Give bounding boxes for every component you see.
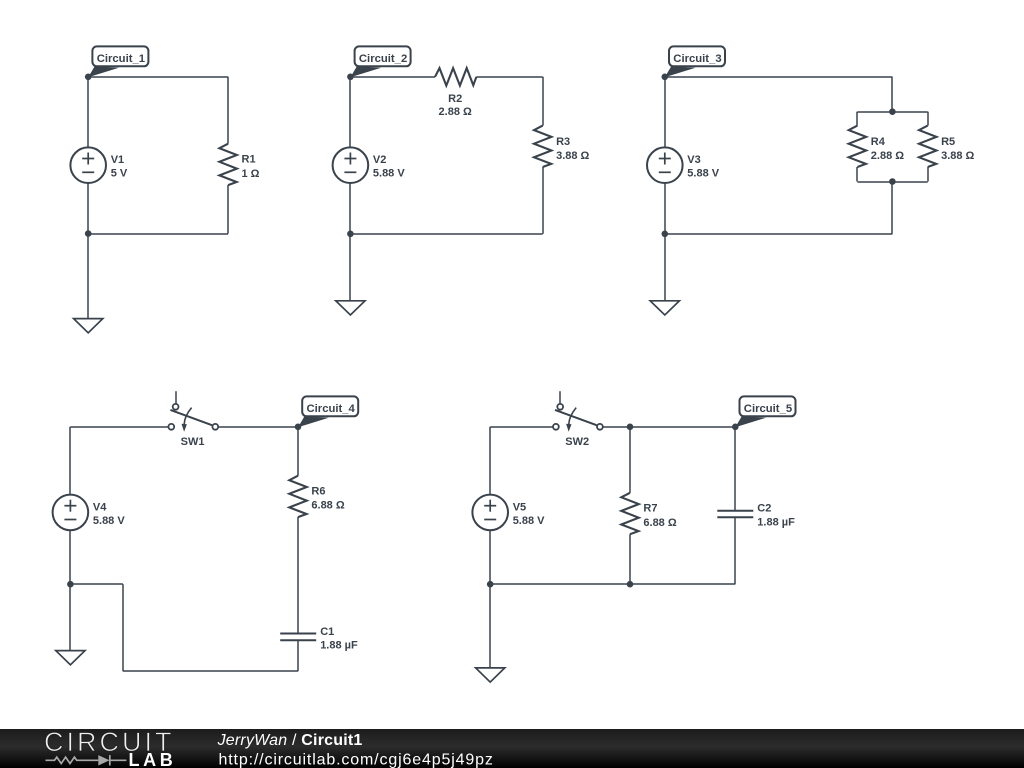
svg-text:http://circuitlab.com/cgj6e4p5: http://circuitlab.com/cgj6e4p5j49pz [219,752,494,768]
wire circuit1 bottom horizontal [88,233,228,235]
wire circuit2 right top [542,77,544,126]
wire circuit2 V2 to bottom node [349,183,351,234]
resistor R4 [849,126,867,167]
svg-text:V3: V3 [687,154,700,166]
wire circuit2 bottom horizontal [350,233,542,235]
label V2 value [373,154,405,179]
svg-text:3.88 Ω: 3.88 Ω [941,150,974,162]
wire circuit4 R6 to C1 [297,517,299,633]
wire R4 bottom lead [856,167,858,182]
resistor R7 [621,493,639,534]
node circuit1 top-left junction [85,74,92,81]
node circuit5 top-right corner [732,424,739,431]
node circuit5 switch-R7 junction [627,424,634,431]
voltage source V4 [53,495,89,531]
svg-text:C1: C1 [320,626,334,638]
wire circuit1 top horizontal [88,76,228,78]
wire circuit3 V3 to bottom node [664,183,666,234]
node circuit2 bottom-left junction [347,231,354,238]
svg-text:Circuit_3: Circuit_3 [673,53,721,65]
wire circuit1 right top [227,77,229,144]
switch SW1 [168,391,218,432]
svg-text:2.88 Ω: 2.88 Ω [871,150,904,162]
svg-text:Circuit_5: Circuit_5 [744,403,792,415]
wire circuit5 left bottom [489,530,491,584]
wire circuit5 left top [489,427,491,495]
svg-text:5 V: 5 V [111,168,128,180]
node circuit5 bottom-left junction [487,581,494,588]
wire circuit1 top node to V1 [87,77,89,148]
svg-text:6.88 Ω: 6.88 Ω [643,517,676,529]
label C1 value [320,626,358,652]
wire circuit1 right bottom [227,185,229,234]
node Circuit_5 callout [735,396,795,427]
voltage source V5 [472,495,508,531]
svg-text:V1: V1 [111,154,124,166]
svg-text:3.88 Ω: 3.88 Ω [556,150,589,162]
ground circuit5 [476,668,505,682]
svg-text:5.88 V: 5.88 V [513,515,545,527]
wire circuit2 top node to V2 [349,77,351,148]
svg-text:2.88 Ω: 2.88 Ω [439,106,472,118]
svg-text:C2: C2 [757,503,771,515]
capacitor C1 [280,634,316,641]
svg-text:R3: R3 [556,136,570,148]
node circuit4 bottom-left junction [67,581,74,588]
svg-text:5.88 V: 5.88 V [373,168,405,180]
wire circuit2 top left segment [350,76,435,78]
svg-text:R4: R4 [871,136,886,148]
wire circuit1 ground lead [87,234,89,319]
node Circuit_4 callout [298,396,358,427]
wire circuit4 bottom horizontal [123,670,298,672]
svg-text:LAB: LAB [129,750,177,768]
voltage source V3 [647,147,683,183]
svg-text:JerryWan / Circuit1: JerryWan / Circuit1 [217,732,363,749]
svg-text:5.88 V: 5.88 V [93,515,125,527]
wire circuit5 ground lead [489,584,491,668]
label V5 value [513,501,545,526]
wire circuit5 C2 top lead [734,427,736,511]
CircuitLab logo resistor-diode squiggle [46,755,127,765]
wire R5 bottom lead [927,167,929,182]
label R3 value [556,136,589,162]
wire circuit4 V4 to switch [70,426,168,428]
wire circuit3 top horizontal [665,76,893,78]
wire circuit5 R7 top lead [629,427,631,493]
label R2 value [439,93,472,118]
wire circuit3 bottom horizontal [665,233,893,235]
node circuit3 parallel top junction [889,108,896,115]
svg-text:V2: V2 [373,154,386,166]
node circuit3 bottom-left junction [662,231,669,238]
wire circuit4 left bottom [69,530,71,584]
svg-text:6.88 Ω: 6.88 Ω [311,500,344,512]
node circuit4 top-right corner [295,424,302,431]
svg-text:SW2: SW2 [565,436,589,448]
node Circuit_1 callout [88,46,148,77]
ground circuit4 [56,651,85,665]
capacitor C2 [717,511,753,518]
wire circuit5 switch to C2 corner [603,426,735,428]
svg-text:R6: R6 [311,486,325,498]
node circuit3 top-left junction [662,74,669,81]
wire circuit4 left top [69,427,71,495]
svg-text:V4: V4 [93,501,107,513]
svg-text:V5: V5 [513,501,526,513]
switch SW2 [553,391,603,432]
wire circuit5 C2 bottom lead [734,517,736,584]
svg-text:SW1: SW1 [181,436,205,448]
svg-text:1.88 µF: 1.88 µF [320,640,358,652]
voltage source V1 [70,147,106,183]
svg-text:R2: R2 [448,93,462,105]
wire circuit4 node to riser [70,583,123,585]
wire circuit1 V1 to bottom node [87,183,89,234]
svg-text:1.88 µF: 1.88 µF [757,516,795,528]
svg-text:Circuit_1: Circuit_1 [97,53,145,65]
resistor R6 [289,476,307,517]
resistor R1 [219,144,237,185]
node circuit2 top-left junction [347,74,354,81]
wire R5 top lead [927,112,929,126]
wire circuit3 ground lead [664,234,666,301]
wire circuit2 top right segment [476,76,542,78]
wire circuit2 right bottom [542,167,544,234]
svg-text:5.88 V: 5.88 V [687,168,719,180]
wire circuit3 upper rail [857,111,927,113]
node circuit5 R7 bottom junction [627,581,634,588]
svg-text:R5: R5 [941,136,955,148]
label R1 value [242,154,260,180]
wire circuit2 ground lead [349,234,351,301]
wire circuit4 right drop to R6 [297,427,299,476]
label C2 value [757,503,795,529]
label R5 value [941,136,974,162]
wire circuit3 top node to V3 [664,77,666,148]
label V1 value [111,154,128,179]
ground circuit2 [336,301,365,315]
label R4 value [871,136,904,162]
wire circuit3 right drop to parallel pair [891,77,893,112]
wire circuit4 switch to corner [219,426,298,428]
label R7 value [643,503,676,529]
wire circuit4 bottom riser [122,584,124,671]
node circuit1 bottom-left junction [85,230,92,237]
svg-text:Circuit_2: Circuit_2 [359,53,407,65]
voltage source V2 [333,147,369,183]
wire circuit5 bottom horizontal [490,583,735,585]
node circuit3 parallel bottom junction [889,178,896,185]
resistor R3 [534,126,552,167]
resistor R2 [435,68,476,86]
wire circuit3 lower rail [857,181,927,183]
node Circuit_2 callout [350,46,410,77]
wire R4 top lead [856,112,858,126]
svg-text:R7: R7 [643,503,657,515]
wire circuit5 R7 bottom lead [629,534,631,584]
wire circuit3 right bottom [891,182,893,234]
label R6 value [311,486,344,512]
wire circuit5 V5 to switch [490,426,552,428]
ground circuit1 [74,319,103,333]
svg-text:R1: R1 [242,154,256,166]
wire circuit4 C1 bottom lead [297,640,299,671]
wire circuit4 ground lead [69,584,71,650]
label V4 value [93,501,125,526]
ground circuit3 [650,301,679,315]
svg-text:Circuit_4: Circuit_4 [307,403,356,415]
label V3 value [687,154,719,179]
node Circuit_3 callout [665,46,725,77]
resistor R5 [919,126,937,167]
svg-text:1 Ω: 1 Ω [242,168,260,180]
